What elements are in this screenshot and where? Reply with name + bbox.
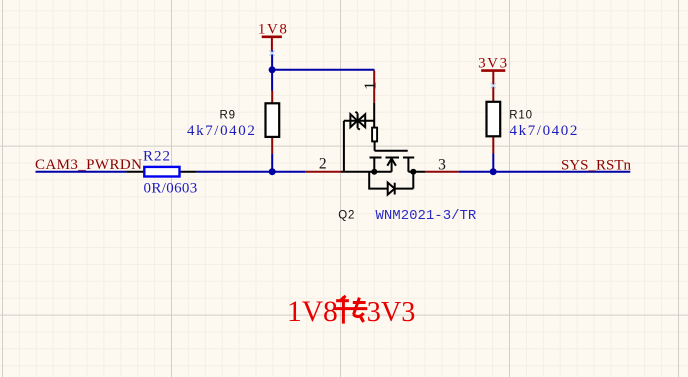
wire pin 3 to SYS_RSTn <box>459 171 631 173</box>
hotspot cross R10 pin <box>491 83 496 88</box>
resistor R22 <box>126 167 196 177</box>
wire R9 to main junction <box>271 154 273 172</box>
svg-text:1V8: 1V8 <box>287 296 338 328</box>
junction dot Q2 drain/diode <box>410 169 416 175</box>
transistor Q2 pin 2 <box>306 171 341 173</box>
wire R22 to junction and pin 2 <box>197 171 306 173</box>
svg-text:2: 2 <box>319 156 327 173</box>
svg-text:0R/0603: 0R/0603 <box>144 181 198 197</box>
wire R10 to main junction <box>492 154 494 172</box>
channel segments <box>370 157 415 159</box>
svg-text:1V8: 1V8 <box>258 21 289 37</box>
TVS protection diode <box>344 121 374 172</box>
svg-text:R10: R10 <box>509 109 533 121</box>
power symbol 1V8 <box>258 21 289 50</box>
hotspot cross 1V8 wire <box>270 51 275 56</box>
svg-text:1: 1 <box>360 82 379 91</box>
transistor Q2 pin 3 <box>425 171 458 173</box>
hanzi zhuan drawn as strokes <box>335 296 368 324</box>
resistor R9 <box>266 91 280 154</box>
svg-text:WNM2021-3/TR: WNM2021-3/TR <box>376 208 477 224</box>
source wire and arrow <box>341 160 392 172</box>
svg-text:R22: R22 <box>143 149 171 165</box>
wire junction A to Q2 pin 1 horizontal <box>272 69 374 71</box>
resistor R10 <box>487 71 501 154</box>
junction dot at 1V8 node <box>269 66 276 73</box>
drain internal wire <box>408 171 425 173</box>
title text 1V8转3V3 <box>287 296 415 328</box>
svg-text:3V3: 3V3 <box>478 55 509 71</box>
svg-text:4k7/0402: 4k7/0402 <box>510 123 579 139</box>
svg-text:4k7/0402: 4k7/0402 <box>187 123 256 139</box>
svg-text:Q2: Q2 <box>338 210 355 222</box>
transistor Q2 body <box>341 103 425 195</box>
junction dot under R10 <box>490 168 497 175</box>
svg-text:3: 3 <box>438 156 446 173</box>
svg-text:SYS_RSTn: SYS_RSTn <box>561 157 632 173</box>
power symbol 3V3 <box>478 55 509 71</box>
body diode <box>369 172 388 189</box>
transistor Q2 pin 1 <box>373 70 375 103</box>
svg-text:3V3: 3V3 <box>367 297 416 328</box>
junction dot Q2 source <box>371 169 377 175</box>
gate resistor <box>372 128 377 142</box>
svg-text:R9: R9 <box>219 109 235 121</box>
wire 1V8 vertical to R9 <box>271 50 273 90</box>
junction dot main wire under R9 <box>269 168 276 175</box>
svg-text:CAM3_PWRDN: CAM3_PWRDN <box>35 157 142 173</box>
gate lead internal <box>373 103 375 128</box>
wire CAM3_PWRDN to R22 <box>36 171 127 173</box>
